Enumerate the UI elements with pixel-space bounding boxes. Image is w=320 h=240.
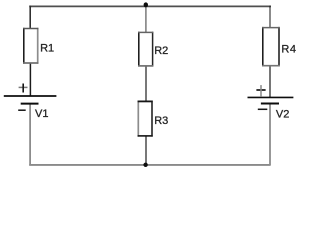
wire middle branch middle (R2 down to R3) bbox=[145, 66, 147, 102]
wire left branch middle (R1 down to V1 positive plate) bbox=[29, 63, 31, 96]
battery V2 minus sign bbox=[258, 108, 268, 110]
node top-right corner joint bbox=[269, 6, 271, 8]
resistor R4 body bbox=[262, 27, 280, 67]
svg-text:R4: R4 bbox=[281, 44, 296, 56]
svg-text:V1: V1 bbox=[35, 108, 48, 120]
wire left branch upper (top bus down to R1) bbox=[29, 6, 31, 29]
battery V1 plus sign bbox=[19, 86, 28, 88]
resistor R1 body bbox=[23, 28, 38, 64]
svg-text:V2: V2 bbox=[276, 109, 289, 121]
wire middle branch upper (top junction down to R2) bbox=[145, 6, 147, 33]
node top junction dot (middle branch joins top bus) bbox=[144, 2, 148, 7]
node top-left corner joint bbox=[29, 6, 31, 8]
battery V2 positive long plate bbox=[248, 96, 294, 98]
svg-text:R3: R3 bbox=[154, 115, 168, 127]
svg-text:R1: R1 bbox=[40, 42, 54, 54]
battery V1 negative short plate bbox=[21, 103, 39, 105]
svg-text:R2: R2 bbox=[154, 45, 168, 57]
wire top bus from left branch to right branch bbox=[29, 5, 270, 7]
wire right branch upper (top bus down to R4) bbox=[269, 6, 271, 28]
resistor R3 body bbox=[138, 101, 153, 137]
wire middle branch lower (R3 down to bottom junction) bbox=[145, 136, 147, 165]
battery V2 negative short plate bbox=[261, 103, 279, 105]
wire left branch lower (V1 negative plate down to bottom bus) bbox=[29, 104, 31, 166]
wire bottom bus from left branch to right branch bbox=[29, 164, 270, 166]
resistor R2 body bbox=[138, 32, 153, 67]
battery V2 plus sign bbox=[256, 89, 265, 91]
wire right branch middle (R4 down to V2 positive plate) bbox=[269, 66, 271, 98]
battery V1 minus sign bbox=[18, 109, 26, 111]
battery V1 positive long plate bbox=[4, 95, 57, 97]
node bottom junction dot (middle branch joins bottom bus) bbox=[143, 163, 147, 167]
wire right branch lower (V2 negative plate down to bottom bus) bbox=[269, 104, 271, 166]
